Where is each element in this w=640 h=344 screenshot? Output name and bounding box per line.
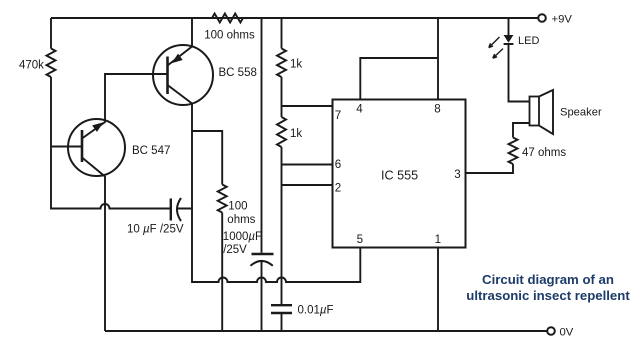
svg-text:4: 4 — [356, 103, 363, 116]
svg-text:1k: 1k — [290, 59, 302, 71]
svg-text:2: 2 — [335, 182, 341, 195]
svg-text:470k: 470k — [19, 60, 44, 72]
svg-text:IC 555: IC 555 — [381, 169, 418, 183]
svg-text:Circuit diagram of an: Circuit diagram of an — [482, 272, 614, 287]
svg-text:/25V: /25V — [223, 244, 247, 256]
svg-text:+9V: +9V — [552, 14, 573, 26]
svg-text:1k: 1k — [290, 128, 302, 140]
svg-text:BC 558: BC 558 — [219, 67, 257, 79]
svg-text:3: 3 — [454, 168, 460, 181]
svg-text:1000µF: 1000µF — [223, 231, 262, 243]
svg-text:7: 7 — [335, 109, 341, 122]
svg-text:1: 1 — [435, 233, 441, 246]
svg-text:Speaker: Speaker — [560, 107, 602, 119]
svg-text:0.01µF: 0.01µF — [298, 305, 334, 317]
svg-text:10 µF /25V: 10 µF /25V — [127, 224, 184, 236]
svg-text:5: 5 — [357, 233, 363, 246]
svg-text:ultrasonic insect repellent: ultrasonic insect repellent — [466, 288, 630, 303]
svg-text:8: 8 — [434, 103, 440, 116]
svg-text:47 ohms: 47 ohms — [522, 147, 566, 159]
svg-text:ohms: ohms — [227, 214, 255, 226]
svg-text:100 ohms: 100 ohms — [204, 30, 255, 42]
svg-text:0V: 0V — [560, 327, 574, 339]
svg-text:100: 100 — [228, 201, 247, 213]
svg-text:BC 547: BC 547 — [132, 145, 170, 157]
svg-text:LED: LED — [518, 35, 539, 47]
svg-text:6: 6 — [335, 158, 341, 171]
